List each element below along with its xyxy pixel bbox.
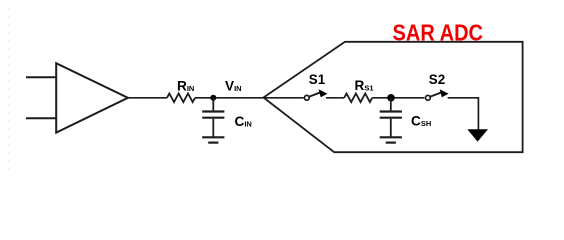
capacitor CSH <box>380 98 402 118</box>
svg-text:CIN: CIN <box>235 114 252 129</box>
ground below CSH <box>380 119 402 143</box>
svg-text:VIN: VIN <box>225 78 242 93</box>
svg-text:S1: S1 <box>309 72 326 87</box>
node CSH junction dot <box>387 94 395 102</box>
svg-text:RS1: RS1 <box>355 78 374 93</box>
ground below CIN <box>202 119 224 143</box>
wire: op-amp output to RIN <box>128 97 167 99</box>
wire: ADC input to S1 <box>264 97 304 99</box>
SAR ADC block outline <box>264 42 523 152</box>
wire: op-amp inverting input stub <box>26 117 57 119</box>
svg-text:RIN: RIN <box>177 78 194 93</box>
arrow to comparator <box>467 129 488 141</box>
op-amp U1 <box>56 63 128 132</box>
wire: RS1 to S2 <box>372 97 424 99</box>
wire: RIN to VIN node to SAR ADC input <box>195 97 264 99</box>
switch S1 <box>304 89 327 100</box>
capacitor CIN <box>202 98 224 118</box>
resistor RS1 <box>344 94 372 103</box>
node VIN (junction dot) <box>210 95 216 101</box>
wire: S2 to comparator branch <box>448 98 479 130</box>
wire: S1 to RS1 <box>326 97 344 99</box>
switch S2 <box>426 89 449 100</box>
svg-text:S2: S2 <box>429 72 445 87</box>
wire: op-amp non-inverting input stub <box>26 76 57 78</box>
resistor RIN <box>167 94 195 103</box>
svg-text:CSH: CSH <box>411 114 431 129</box>
svg-text:SAR ADC: SAR ADC <box>393 20 484 46</box>
